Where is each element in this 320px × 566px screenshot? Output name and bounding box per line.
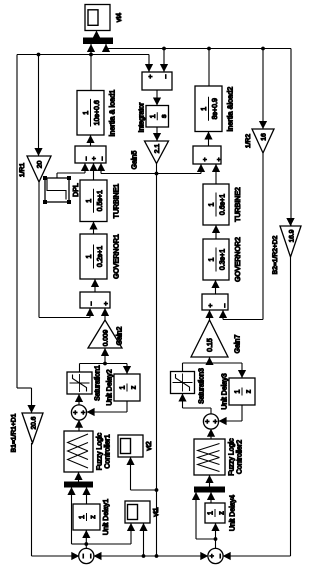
svg-text:Unit Delay2: Unit Delay2	[107, 369, 114, 405]
svg-text:TURBINE2: TURBINE2	[235, 187, 242, 222]
svg-text:1: 1	[209, 257, 216, 261]
svg-text:16.9: 16.9	[288, 229, 295, 242]
block Unit Delay3 (1/z, mirrored)	[222, 373, 256, 409]
svg-text:GOVERNOR1: GOVERNOR1	[114, 234, 121, 279]
wire Gain2 output to governor1 sum + input	[101, 308, 109, 320]
svg-text:+: +	[91, 156, 98, 160]
block Integrator 1/s (mirrored)	[139, 102, 169, 133]
svg-text:+: +	[208, 303, 215, 307]
gain triangle 1/R1 (20)	[19, 156, 51, 182]
svg-text:20: 20	[37, 161, 44, 169]
svg-text:z: z	[246, 389, 253, 393]
gain triangle B1=1/R1+D1 (20.6)	[11, 413, 44, 452]
wire FLC2 output to accumulator circle area2	[207, 429, 215, 439]
sum junction circle2 (ACE2 = B2*df2 + Ptie)	[208, 548, 224, 563]
wire Saturation1 output down to Unit Delay2 with Gain2 branch	[80, 348, 132, 374]
svg-text:–: –	[88, 301, 95, 305]
wire GOVERNOR1 to TURBINE1	[89, 222, 97, 235]
wire accumulator circle2 up into Saturation3	[178, 394, 211, 415]
block inertia & load1 1/(10s+0.6)	[77, 90, 117, 137]
wire governor2 sum output to GOVERNOR2	[211, 280, 219, 294]
block Unit Delay2 (1/z, mirrored)	[107, 369, 141, 405]
gain Gain2 (0.009)	[88, 320, 124, 348]
svg-text:z: z	[219, 511, 226, 515]
wire inertia&load1 output to df1 bus and Mux1	[87, 44, 95, 91]
svg-text:+: +	[202, 157, 209, 161]
wire Unit Delay3 output back to accumulator circle2	[219, 405, 242, 425]
wire branch circle1 down to scope vt1 input 1	[86, 523, 135, 544]
gain triangle 1/R2 (16)	[245, 129, 274, 153]
gain Gain5 (2.1), pointing left	[132, 141, 169, 169]
svg-text:0.5s+1: 0.5s+1	[97, 190, 104, 211]
svg-text:–: –	[80, 554, 87, 558]
svg-text:Saturation3: Saturation3	[199, 368, 206, 404]
svg-text:Controller1: Controller1	[105, 434, 112, 468]
svg-text:1/R2: 1/R2	[245, 134, 252, 148]
wire Mux1 output to scope vt4	[92, 31, 100, 39]
svg-text:Fuzzy Logic: Fuzzy Logic	[229, 438, 236, 476]
wire Mux2 output to Fuzzy Logic Controller1	[74, 472, 82, 482]
wire tap to scope vt1 input 2	[139, 523, 147, 556]
wire branch circle2 to Mux3 input 1	[192, 492, 216, 539]
wire inertia&load2 output to df2 bus	[208, 49, 210, 87]
wire Gain5 output joining tie-line vertical	[155, 164, 159, 176]
block GOVERNOR1 1/(0.2s+1)	[80, 234, 121, 279]
block inertia & load2 1/(8s+0.9)	[195, 86, 235, 132]
sum block ACE1 (+ -), mirrored inputs on right	[142, 72, 172, 90]
block TURBINE1 1/(0.5s+1)	[80, 180, 121, 222]
wire TURBINE2 to inertia2 sum	[212, 164, 220, 184]
wire inertia1 sum output to inertia & load1	[86, 135, 94, 146]
gain Gain7 (0.15)	[191, 320, 242, 357]
svg-text:+: +	[216, 157, 223, 161]
wire df1 branch to 1/R1	[34, 53, 42, 156]
mux Mux3 (inputs to fuzzy controller 2)	[194, 487, 225, 493]
svg-text:Fuzzy Logic: Fuzzy Logic	[97, 432, 104, 470]
svg-text:0.6s+1: 0.6s+1	[220, 194, 227, 215]
svg-text:+: +	[80, 410, 87, 414]
svg-text:8s+0.9: 8s+0.9	[212, 98, 219, 119]
svg-text:–: –	[163, 74, 170, 78]
wire B1 output to circle1 top	[32, 443, 80, 560]
svg-text:Saturation1: Saturation1	[95, 365, 102, 401]
svg-text:GOVERNOR2: GOVERNOR2	[235, 237, 242, 282]
wire governor1 sum output to GOVERNOR1	[91, 279, 99, 292]
block DPL (step input, selected with handles)	[43, 176, 80, 204]
block Saturation3	[171, 368, 206, 404]
svg-text:2.1: 2.1	[154, 144, 161, 154]
wire inertia2 sum output to inertia & load2	[204, 132, 212, 147]
block Unit Delay1 (1/z)	[73, 499, 110, 535]
wire Saturation3 output down to Unit Delay3 with Gain7 branch	[183, 357, 247, 378]
svg-text:vt4: vt4	[116, 13, 123, 22]
svg-text:+: +	[148, 74, 155, 78]
block GOVERNOR2 1/(0.3s+1)	[203, 237, 242, 282]
sum junction circle (fuzzy PI accumulator area 1)	[71, 405, 87, 420]
wire tie power down into circle2 top	[157, 552, 209, 560]
wire df2 branch to 1/R2	[259, 49, 267, 130]
svg-text:1: 1	[83, 111, 90, 115]
svg-text:s: s	[161, 114, 168, 118]
svg-text:0.009: 0.009	[103, 329, 110, 346]
block Fuzzy Logic Controller1	[64, 431, 112, 472]
wire accumulator circle to Saturation1	[75, 394, 83, 405]
wire ACE1 sum output to Integrator (leftward)	[153, 90, 161, 106]
svg-text:+: +	[212, 419, 219, 423]
svg-text:1: 1	[235, 389, 242, 393]
svg-text:20.6: 20.6	[30, 416, 37, 429]
scope vt2	[118, 435, 153, 457]
svg-text:0.2s+1: 0.2s+1	[97, 246, 104, 267]
block Unit Delay4 (1/z)	[205, 495, 237, 531]
svg-text:Controller2: Controller2	[237, 440, 244, 474]
svg-text:B2=1/R2+D2: B2=1/R2+D2	[272, 235, 279, 274]
block Saturation1	[67, 365, 102, 401]
svg-text:TURBINE1: TURBINE1	[114, 184, 121, 219]
sum block governor2 input (+ -)	[202, 294, 229, 310]
svg-text:1/R1: 1/R1	[19, 163, 26, 177]
scope vt4	[85, 5, 123, 31]
svg-text:–: –	[83, 156, 90, 160]
wire GOVERNOR2 to TURBINE2	[212, 225, 220, 239]
scope vt1 (two inputs)	[125, 501, 160, 523]
mux Mux1 (inputs df1, df2 to scope vt4)	[83, 38, 113, 45]
wire Unit Delay1 output to Mux2 input 2	[82, 487, 90, 504]
svg-text:–: –	[99, 156, 106, 160]
svg-text:1: 1	[209, 202, 216, 206]
svg-text:+: +	[73, 410, 80, 414]
wire Integrator output to Gain5 (leftward)	[153, 127, 161, 141]
svg-text:Gain7: Gain7	[235, 335, 242, 354]
svg-text:Gain5: Gain5	[132, 151, 139, 170]
wire 1/R2 output droop to governor2 sum	[219, 153, 263, 320]
svg-text:10s+0.6: 10s+0.6	[94, 100, 101, 125]
wire tie-line vertical feeding both inertia sums	[97, 163, 205, 174]
wire df1 into ACE1 sum + input	[145, 55, 153, 73]
svg-text:+: +	[209, 554, 216, 558]
sum junction circle (fuzzy PI accumulator area 2)	[203, 414, 219, 429]
svg-text:Gain2: Gain2	[117, 327, 124, 346]
svg-text:+: +	[103, 301, 110, 305]
wire Gain7 output to governor2 sum + input	[205, 310, 213, 320]
svg-text:z: z	[90, 515, 97, 519]
wire circle2 output to Unit Delay4 with junction	[211, 523, 219, 549]
svg-text:B1=1/R1+D1: B1=1/R1+D1	[11, 413, 18, 452]
svg-text:inertia & load1: inertia & load1	[108, 90, 117, 137]
svg-text:inertia &load2: inertia &load2	[226, 87, 235, 132]
wire TURBINE1 to inertia1 sum	[89, 163, 97, 180]
svg-text:DPL: DPL	[73, 183, 80, 197]
sum block inertia1 input (- + -)	[75, 146, 106, 163]
svg-text:Unit Delay4: Unit Delay4	[230, 495, 237, 531]
svg-text:Unit Delay3: Unit Delay3	[222, 373, 229, 409]
wire circle1 output to Unit Delay1 with junction	[82, 530, 90, 549]
block Fuzzy Logic Controller2	[194, 438, 244, 476]
svg-text:0.3s+1: 0.3s+1	[220, 249, 227, 270]
wire tie power up into circle1 bottom	[94, 552, 157, 560]
svg-text:z: z	[131, 385, 138, 389]
svg-text:+: +	[205, 419, 212, 423]
wire tie-line power long run to left edge	[155, 174, 159, 558]
svg-text:–: –	[222, 303, 229, 307]
svg-text:1: 1	[208, 511, 215, 515]
svg-text:1: 1	[86, 199, 93, 203]
svg-text:1: 1	[120, 385, 127, 389]
svg-text:1: 1	[150, 114, 157, 118]
svg-text:1: 1	[201, 107, 208, 111]
wire 1/R1 output droop to governor1 sum	[39, 182, 94, 318]
wire branch circle1 to Mux2 input 1	[67, 487, 86, 544]
sum junction circle1 (ACE1 = B1*df1 + Ptie)	[79, 548, 95, 563]
mux Mux2 (inputs to fuzzy controller 1)	[64, 482, 93, 488]
wire DPL output to inertia1 sum - input	[57, 163, 89, 178]
wire B2 feed arrow into triangle	[286, 218, 294, 226]
wire B2 output long run to circle2 bottom	[223, 257, 291, 560]
svg-text:vt2: vt2	[146, 441, 153, 450]
svg-text:1: 1	[86, 254, 93, 258]
wire Unit Delay2 output back to accumulator circle	[87, 401, 127, 416]
wire df1 bus vertical with top feedback run to B1	[17, 55, 149, 414]
svg-text:1: 1	[79, 515, 86, 519]
wire FLC1 output to accumulator circle	[75, 420, 83, 431]
wire df2 bus vertical	[102, 44, 291, 52]
svg-text:0.15: 0.15	[207, 338, 214, 352]
svg-text:Integrator: Integrator	[139, 102, 146, 133]
wire tap to scope vt2	[126, 457, 156, 490]
block TURBINE2 1/(0.6s+1)	[203, 184, 242, 225]
wire df2 into ACE1 sum - input	[160, 49, 168, 73]
sum block governor1 input (- +)	[80, 292, 110, 308]
svg-text:Unit Delay1: Unit Delay1	[103, 499, 110, 535]
sum block inertia2 input (+ +)	[193, 146, 223, 164]
wire df2 bottom run to B2	[286, 49, 294, 227]
gain triangle B2=1/R2+D2 (16.9)	[272, 226, 301, 274]
wire Mux3 output to Fuzzy Logic Controller2	[205, 475, 213, 487]
svg-text:16: 16	[261, 133, 268, 141]
wire Unit Delay4 output to Mux3 input 2	[207, 492, 215, 503]
